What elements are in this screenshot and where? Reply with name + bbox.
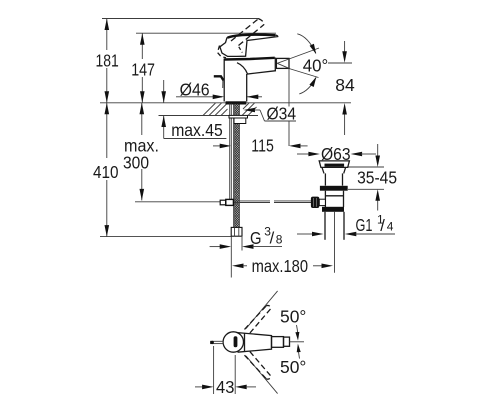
- faucet: spray fan lines: [289, 34, 319, 94]
- lever bar: [234, 336, 238, 347]
- lower tube: [324, 191, 326, 207]
- rod coupler: [220, 199, 233, 205]
- bottom collar: [322, 207, 344, 212]
- dim Ø63: [297, 144, 376, 164]
- dim G3/8: [210, 224, 283, 252]
- 50deg legs: [246, 291, 278, 329]
- dashed handle down: [245, 352, 272, 380]
- dim 84: [328, 41, 355, 135]
- body top / spout top thick edge: [224, 58, 275, 60]
- base plate: [226, 101, 247, 104]
- dim 35-45: [348, 144, 397, 211]
- deck top line: [100, 102, 351, 104]
- hose end ref line: [100, 236, 232, 238]
- knurled knob: [325, 195, 343, 197]
- svg-text:G: G: [250, 228, 262, 248]
- svg-text:/: /: [380, 217, 385, 235]
- svg-text:50°: 50°: [280, 357, 306, 377]
- dim 43: [195, 346, 256, 397]
- dim 181: [94, 19, 120, 103]
- svg-text:max.45: max.45: [171, 120, 223, 140]
- svg-text:410: 410: [93, 162, 119, 182]
- dim Ø34 leader: [244, 104, 297, 124]
- popup vertical rod: [229, 104, 231, 200]
- deck bottom line: [159, 115, 259, 117]
- svg-text:147: 147: [131, 60, 155, 80]
- horizontal popup rod: [233, 201, 311, 203]
- svg-text:84: 84: [335, 75, 355, 95]
- body cone: [238, 333, 272, 353]
- deck hatch right: [242, 103, 257, 116]
- svg-text:Ø34: Ø34: [267, 104, 297, 124]
- dim 40deg: [303, 55, 329, 75]
- washer under deck: [229, 115, 248, 118]
- spout neck top view: [272, 337, 284, 348]
- dim max45: [161, 80, 226, 140]
- spout underside: [237, 63, 276, 74]
- svg-text:35-45: 35-45: [357, 168, 397, 188]
- body left edge: [223, 59, 225, 102]
- body circle: [223, 332, 243, 352]
- popup knob behind body: [214, 76, 224, 80]
- svg-text:8: 8: [276, 232, 283, 246]
- svg-text:40°: 40°: [303, 55, 329, 75]
- rod pin: [211, 341, 224, 343]
- aerator ext line: [288, 69, 290, 107]
- deck hatch left: [203, 103, 228, 116]
- aerator: [276, 58, 289, 68]
- spout tip face: [274, 58, 276, 71]
- axis line: [290, 341, 305, 343]
- hose end nut: [231, 227, 242, 236]
- svg-text:181: 181: [96, 51, 119, 71]
- mounting nut: [234, 118, 246, 124]
- ext line lever tip level: [136, 32, 276, 34]
- dim 115: [213, 136, 308, 156]
- neck taper: [322, 167, 346, 173]
- dim 147: [130, 33, 156, 103]
- tailpipe: [324, 212, 326, 240]
- svg-text:300: 300: [123, 153, 149, 173]
- ext line top (lever raised level): [102, 18, 259, 20]
- dim G1 1/4: [297, 213, 395, 237]
- faucet body side view: [224, 58, 289, 105]
- popup waste: lid: [311, 161, 350, 273]
- rod left ext line (max300 ref): [135, 201, 220, 203]
- top view: [211, 291, 307, 394]
- braided hose: [234, 104, 240, 228]
- svg-text:max.180: max.180: [252, 256, 309, 276]
- svg-text:50°: 50°: [280, 307, 306, 327]
- dim max300: [122, 103, 160, 201]
- dashed handle up: [245, 305, 272, 333]
- svg-text:43: 43: [216, 377, 234, 397]
- lever handle raised (dashed): [218, 19, 265, 58]
- svg-text:115: 115: [251, 136, 273, 156]
- body right edge: [246, 74, 248, 102]
- dim Ø46: [176, 80, 262, 100]
- svg-text:G1: G1: [356, 215, 373, 235]
- flange: [320, 186, 348, 191]
- upper tube: [324, 173, 326, 185]
- svg-text:/: /: [270, 229, 275, 247]
- dim max180: [231, 253, 333, 278]
- lever handle solid: [220, 35, 278, 57]
- dim 410: [92, 103, 120, 237]
- svg-text:4: 4: [387, 220, 394, 234]
- 50 deg leaders: [297, 325, 298, 333]
- aerator top view: [284, 337, 290, 346]
